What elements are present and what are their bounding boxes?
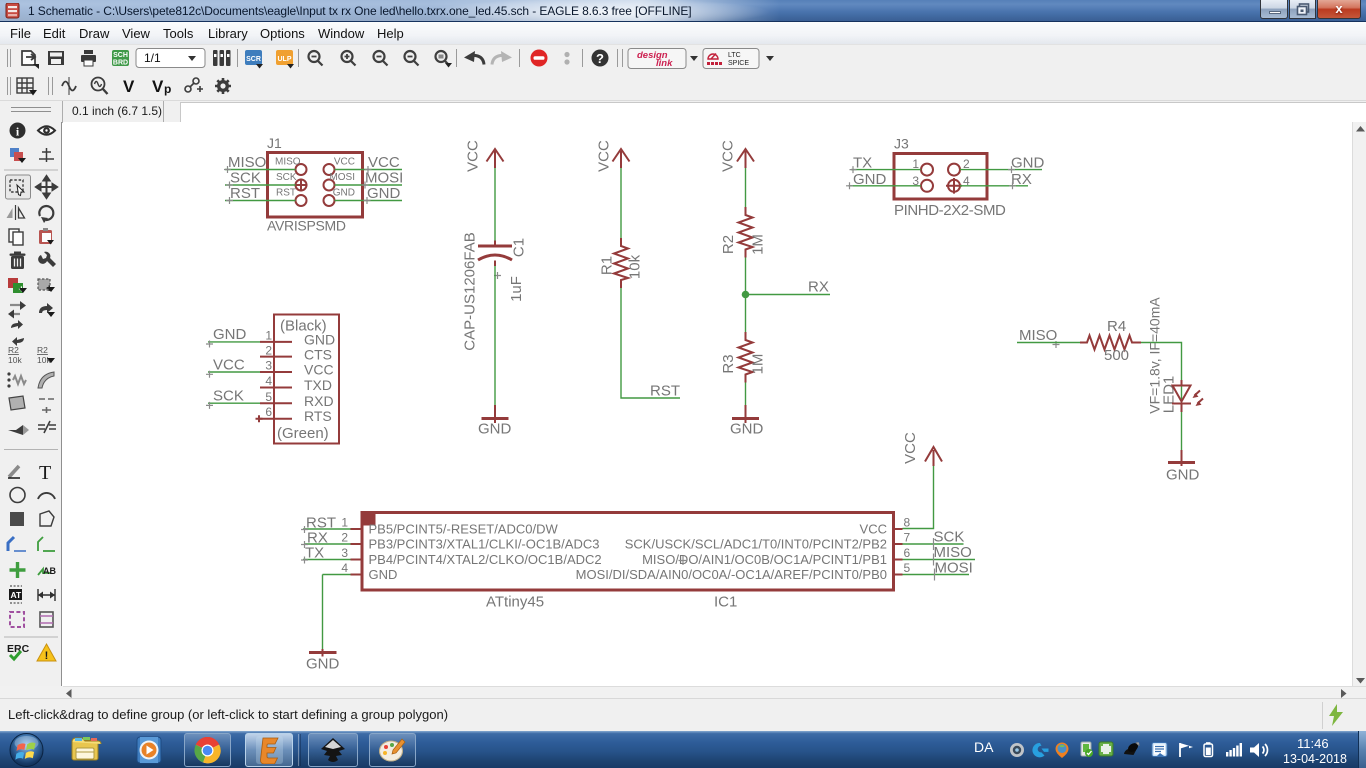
svg-text:GND: GND: [333, 188, 355, 199]
svg-text:MISO: MISO: [934, 544, 972, 561]
svg-text:VCC: VCC: [334, 157, 355, 168]
svg-text:GND: GND: [367, 185, 401, 202]
svg-text:2: 2: [963, 157, 970, 171]
svg-text:R4: R4: [1107, 318, 1126, 335]
svg-text:AVRISPSMD: AVRISPSMD: [267, 218, 346, 234]
svg-text:GND: GND: [478, 421, 512, 438]
svg-text:SCK/USCK/SCL/ADC1/T0/INT0/PCIN: SCK/USCK/SCL/ADC1/T0/INT0/PCINT2/PB2: [625, 537, 887, 552]
svg-text:BRD: BRD: [113, 60, 128, 67]
svg-text:1uF: 1uF: [508, 276, 525, 302]
svg-text:link: link: [656, 58, 673, 69]
svg-text:RXD: RXD: [304, 393, 334, 409]
svg-text:R1: R1: [599, 256, 616, 275]
svg-text:3: 3: [341, 546, 348, 560]
svg-text:VCC: VCC: [213, 357, 245, 374]
svg-text:1: 1: [265, 329, 272, 343]
svg-text:V: V: [123, 77, 135, 96]
svg-text:GND: GND: [853, 171, 887, 188]
svg-text:1: 1: [912, 157, 919, 171]
svg-text:ULP: ULP: [278, 56, 292, 63]
svg-text:GND: GND: [730, 421, 764, 438]
svg-text:1/1: 1/1: [144, 51, 161, 65]
svg-text:VCC: VCC: [902, 432, 919, 464]
svg-text:LTC: LTC: [728, 52, 741, 59]
svg-text:C1: C1: [511, 238, 528, 257]
svg-text:SPICE: SPICE: [728, 60, 749, 67]
svg-text:1: 1: [341, 516, 348, 530]
svg-text:SCH: SCH: [113, 52, 128, 59]
svg-text:10k: 10k: [627, 254, 644, 279]
svg-text:MISO/DO/AIN1/OC0B/OC1A/PCINT1/: MISO/DO/AIN1/OC0B/OC1A/PCINT1/PB1: [642, 552, 887, 567]
svg-text:CAP-US1206FAB: CAP-US1206FAB: [462, 232, 479, 350]
svg-text:VCC: VCC: [596, 140, 613, 172]
svg-text:TX: TX: [853, 155, 872, 172]
svg-text:R3: R3: [720, 354, 737, 373]
svg-text:PB4/PCINT4/XTAL2/CLKO/OC1B/ADC: PB4/PCINT4/XTAL2/CLKO/OC1B/ADC2: [369, 552, 602, 567]
svg-text:p: p: [164, 82, 171, 96]
svg-text:GND: GND: [213, 326, 247, 343]
svg-text:8: 8: [904, 516, 911, 530]
svg-text:MOSI: MOSI: [365, 170, 403, 187]
svg-text:VCC: VCC: [720, 140, 737, 172]
svg-text:VCC: VCC: [304, 362, 334, 378]
svg-text:7: 7: [904, 531, 911, 545]
svg-text:SCK: SCK: [230, 170, 261, 187]
svg-text:GND: GND: [304, 332, 335, 348]
svg-text:GND: GND: [1011, 155, 1045, 172]
svg-text:5: 5: [904, 561, 911, 575]
svg-text:LED1: LED1: [1161, 376, 1178, 414]
svg-text:2: 2: [341, 531, 348, 545]
svg-text:6: 6: [265, 405, 272, 419]
svg-text:4: 4: [265, 374, 272, 388]
svg-text:MISO: MISO: [1019, 327, 1057, 344]
svg-text:RST: RST: [650, 383, 680, 400]
svg-text:TX: TX: [305, 545, 324, 562]
svg-text:SCK: SCK: [213, 388, 244, 405]
svg-text:GND: GND: [306, 656, 340, 673]
svg-text:J1: J1: [267, 135, 282, 151]
svg-text:4: 4: [341, 561, 348, 575]
svg-text:VCC: VCC: [368, 154, 400, 171]
svg-text:V: V: [152, 77, 164, 96]
svg-text:10k: 10k: [8, 355, 22, 365]
svg-text:VCC: VCC: [860, 522, 887, 537]
svg-text:SCK: SCK: [276, 172, 297, 183]
svg-text:RST: RST: [276, 188, 296, 199]
svg-text:1M: 1M: [750, 354, 767, 375]
svg-text:GND: GND: [369, 567, 398, 582]
svg-text:6: 6: [904, 546, 911, 560]
svg-text:IC1: IC1: [714, 594, 737, 611]
svg-text:PB5/PCINT5/-RESET/ADC0/DW: PB5/PCINT5/-RESET/ADC0/DW: [369, 522, 559, 537]
svg-text:RTS: RTS: [304, 408, 332, 424]
svg-text:ATtiny45: ATtiny45: [486, 594, 544, 611]
svg-text:?: ?: [596, 51, 604, 66]
svg-text:5: 5: [265, 390, 272, 404]
svg-text:3: 3: [265, 359, 272, 373]
svg-text:CTS: CTS: [304, 346, 332, 362]
svg-text:GND: GND: [1166, 467, 1200, 484]
svg-text:1M: 1M: [750, 234, 767, 255]
svg-text:R2: R2: [8, 345, 19, 355]
svg-text:SCK: SCK: [934, 529, 965, 546]
svg-text:500: 500: [1104, 347, 1129, 364]
svg-text:MISO: MISO: [228, 154, 266, 171]
svg-text:J3: J3: [894, 136, 909, 152]
svg-text:PINHD-2X2-SMD: PINHD-2X2-SMD: [894, 202, 1006, 219]
svg-text:MOSI: MOSI: [329, 172, 355, 183]
svg-text:VCC: VCC: [465, 140, 482, 172]
svg-text:T: T: [39, 462, 51, 484]
svg-text:AB: AB: [43, 566, 56, 576]
svg-text:(Green): (Green): [277, 425, 329, 442]
svg-text:MOSI: MOSI: [935, 560, 973, 577]
svg-text:AT: AT: [11, 590, 23, 600]
svg-text:SCR: SCR: [246, 56, 261, 63]
svg-text:TXD: TXD: [304, 377, 332, 393]
svg-text:2: 2: [265, 343, 272, 357]
svg-text:PB3/PCINT3/XTAL1/CLKI/-OC1B/AD: PB3/PCINT3/XTAL1/CLKI/-OC1B/ADC3: [369, 537, 600, 552]
svg-text:MISO: MISO: [275, 157, 301, 168]
svg-text:!: !: [45, 650, 49, 662]
svg-text:RX: RX: [808, 279, 829, 296]
svg-text:R2: R2: [720, 235, 737, 254]
svg-text:RST: RST: [230, 185, 260, 202]
svg-text:R2: R2: [37, 345, 48, 355]
svg-text:MOSI/DI/SDA/AIN0/OC0A/-OC1A/AR: MOSI/DI/SDA/AIN0/OC0A/-OC1A/AREF/PCINT0/…: [576, 567, 887, 582]
